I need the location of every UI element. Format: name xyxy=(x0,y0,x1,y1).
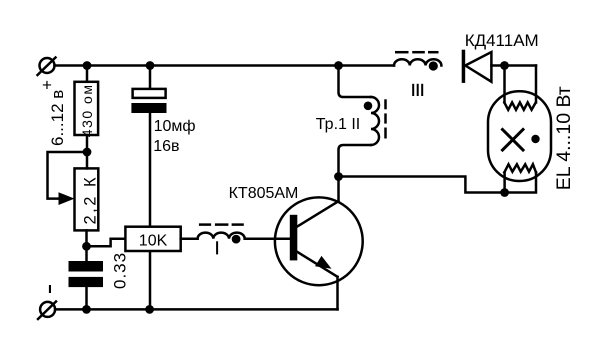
svg-text:КД411АМ: КД411АМ xyxy=(465,31,539,50)
wire C2 top lead xyxy=(149,66,152,89)
transformer core dashes xyxy=(384,99,387,138)
svg-text:10мф: 10мф xyxy=(154,118,196,135)
wire R1 top lead xyxy=(86,66,89,82)
wire lamp bottom filament left lead xyxy=(503,172,506,192)
lamp EL envelope xyxy=(488,91,551,181)
resistor R3 10K xyxy=(125,227,180,251)
wire diode to lamp xyxy=(491,64,536,67)
svg-text:0.33: 0.33 xyxy=(111,252,130,289)
wire winding I to base xyxy=(245,238,290,241)
svg-text:Тр.1 II: Тр.1 II xyxy=(316,116,360,133)
svg-text:6...12 в: 6...12 в xyxy=(48,90,67,146)
svg-text:16в: 16в xyxy=(153,138,179,155)
svg-text:КТ805АМ: КТ805АМ xyxy=(229,185,299,202)
wire emitter down to bottom rail xyxy=(336,277,339,310)
resistor R1 430 ом xyxy=(75,82,99,137)
lamp discharge X symbol xyxy=(503,130,524,151)
lamp top filament xyxy=(504,102,536,109)
wire C2 bottom lead down to bottom rail xyxy=(149,113,152,309)
wire collector node to lamp bottom xyxy=(339,172,537,192)
node junction diode / lamp top filament xyxy=(500,61,509,70)
node junction R2/C1/R3 xyxy=(82,242,91,251)
node junction bottom rail / R3 xyxy=(145,305,154,314)
wire collector up to junction xyxy=(337,177,340,202)
capacitor C2 10мф 16в xyxy=(131,89,195,155)
wire wiper loop xyxy=(48,152,88,199)
svg-text:EL 4...10 Вт: EL 4...10 Вт xyxy=(553,86,575,190)
node junction bottom rail / C1 xyxy=(82,305,91,314)
node junction R1/R2/wiper xyxy=(83,148,92,157)
capacitor C1 0.33 xyxy=(69,252,130,289)
wire bottom rail xyxy=(55,308,337,311)
svg-text:10K: 10K xyxy=(139,232,168,249)
label - polarity xyxy=(49,285,51,293)
node junction top rail / C2 xyxy=(146,61,155,70)
potentiometer R2 2,2К xyxy=(59,168,100,230)
wire lamp top filament right lead xyxy=(535,66,538,103)
wire winding II top lead xyxy=(339,66,372,98)
wire R1 bottom lead to R2 xyxy=(86,135,89,168)
svg-text:2,2 К: 2,2 К xyxy=(81,175,99,225)
wire jog junction to R3 xyxy=(87,239,126,247)
wire winding II bottom lead xyxy=(339,145,372,177)
node junction lamp bottom filament xyxy=(500,188,509,197)
wire lamp top filament left lead xyxy=(503,66,506,103)
wire top rail xyxy=(55,64,395,67)
lamp bottom filament xyxy=(504,164,536,172)
inductor winding I xyxy=(198,225,245,254)
transformer winding II xyxy=(364,97,379,145)
diode VD1 КД411АМ xyxy=(462,31,539,83)
inductor winding III xyxy=(394,52,441,95)
lamp gas dot xyxy=(531,135,539,143)
terminal X2 (-) bottom-left xyxy=(38,302,56,320)
terminal X1 (+) top-left xyxy=(38,58,56,76)
node junction top rail / winding II xyxy=(334,61,343,70)
node junction top rail / R1 xyxy=(83,61,92,70)
wire R3 right lead xyxy=(181,238,198,241)
node junction collector / winding II / lamp xyxy=(334,172,343,181)
wire R2 bottom lead xyxy=(85,230,88,261)
svg-text:430 ом: 430 ом xyxy=(79,84,95,138)
wire C1 bottom lead xyxy=(85,287,88,309)
transistor Q1 КТ805АМ xyxy=(229,185,363,285)
